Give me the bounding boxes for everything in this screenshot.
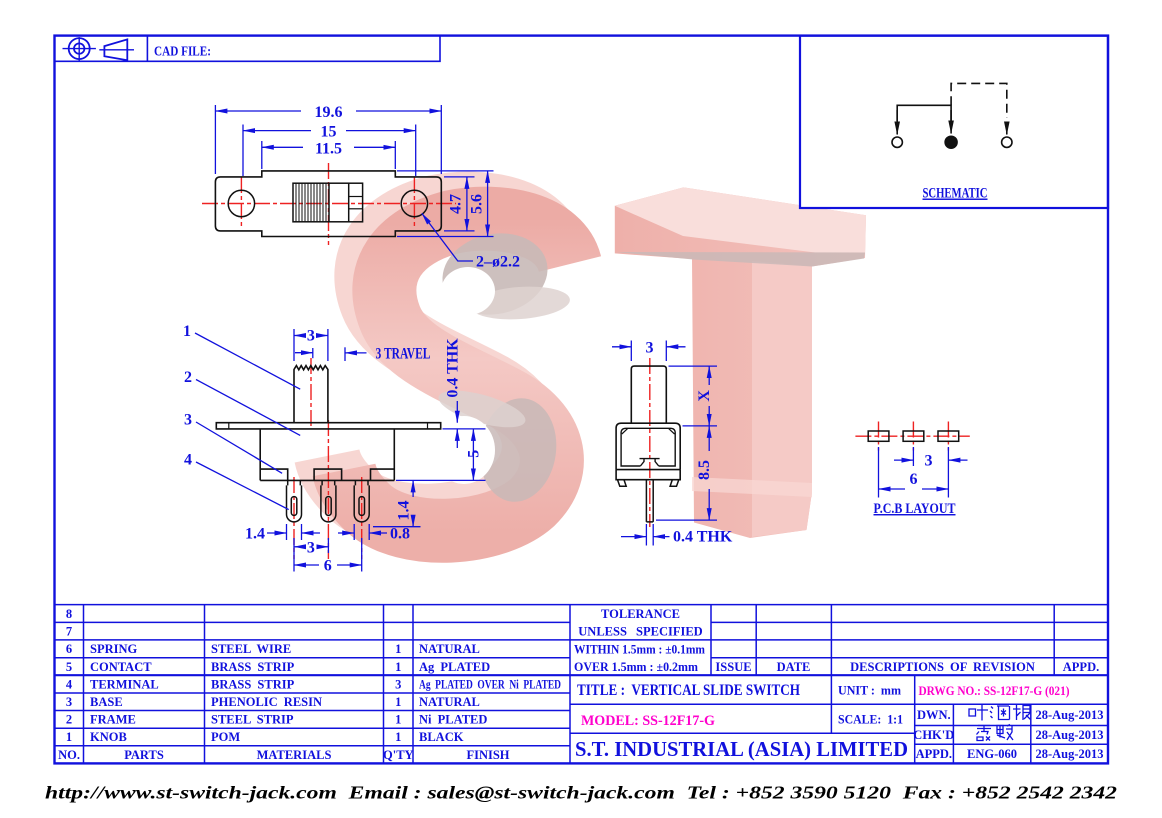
svg-text:BASE: BASE bbox=[90, 695, 123, 709]
svg-text:2: 2 bbox=[184, 369, 192, 386]
watermark ST bbox=[327, 187, 866, 538]
projection symbol (trapezoid) bbox=[104, 39, 127, 60]
svg-text:APPD.: APPD. bbox=[916, 747, 952, 761]
leader 2-phi2.2 bbox=[422, 213, 473, 261]
dim 5.6 bbox=[487, 171, 489, 237]
knob divider lines bbox=[328, 183, 330, 222]
base step left bbox=[260, 469, 288, 480]
svg-text:OVER 1.5mm : ±0.2mm: OVER 1.5mm : ±0.2mm bbox=[574, 660, 699, 674]
dim 6 bottom bbox=[294, 538, 362, 572]
top view bbox=[202, 104, 520, 271]
red centerline bbox=[649, 358, 651, 527]
svg-text:STEEL STRIP: STEEL STRIP bbox=[211, 713, 294, 727]
section divider thick bbox=[55, 674, 1109, 676]
body bbox=[260, 429, 394, 481]
svg-text:0.8: 0.8 bbox=[390, 526, 410, 543]
svg-text:UNLESS SPECIFIED: UNLESS SPECIFIED bbox=[578, 625, 702, 639]
dim 3 side bbox=[612, 341, 686, 362]
svg-text:BRASS STRIP: BRASS STRIP bbox=[211, 677, 295, 691]
title block bbox=[55, 605, 1109, 764]
svg-text:1: 1 bbox=[395, 642, 401, 656]
dimension extension lines bbox=[215, 105, 493, 237]
cad file divider bbox=[146, 36, 148, 62]
svg-text:MATERIALS: MATERIALS bbox=[257, 748, 332, 762]
terminal circle middle (common, filled) bbox=[945, 136, 957, 148]
svg-text:0.4 THK: 0.4 THK bbox=[673, 529, 733, 546]
svg-text:PARTS: PARTS bbox=[124, 748, 164, 762]
body collar bbox=[616, 470, 680, 480]
svg-text:1: 1 bbox=[395, 660, 401, 674]
svg-text:SPRING: SPRING bbox=[90, 642, 138, 656]
front view bbox=[183, 323, 486, 575]
name CHKD (Chinese strokes) bbox=[977, 725, 1014, 741]
svg-text:1.4: 1.4 bbox=[245, 526, 265, 543]
svg-text:8.5: 8.5 bbox=[696, 460, 713, 480]
svg-text:ISSUE: ISSUE bbox=[715, 660, 751, 674]
dim 15 bbox=[243, 130, 416, 132]
svg-text:DWN.: DWN. bbox=[917, 708, 951, 722]
T stem light band bbox=[692, 477, 812, 497]
arrow right bbox=[1006, 122, 1008, 135]
terminal circle left bbox=[892, 137, 902, 147]
base center bump bbox=[314, 469, 342, 480]
dim 5 bbox=[396, 429, 486, 481]
T bar top face bbox=[615, 187, 866, 252]
finish column bbox=[419, 642, 561, 744]
svg-text:19.6: 19.6 bbox=[315, 104, 343, 121]
svg-text:Q'TY: Q'TY bbox=[383, 748, 414, 762]
knob side bbox=[631, 366, 666, 423]
dim 8.5 bbox=[656, 426, 717, 520]
svg-text:ENG-060: ENG-060 bbox=[967, 747, 1017, 761]
registration target symbol bbox=[69, 38, 90, 59]
dates bbox=[1036, 708, 1104, 761]
svg-text:15: 15 bbox=[321, 124, 337, 141]
cad file box bbox=[55, 36, 441, 62]
dim 0.8 bottom bbox=[338, 524, 387, 540]
terminal pin bbox=[646, 480, 653, 522]
arrow left bbox=[896, 110, 898, 135]
plate outline bbox=[215, 171, 441, 237]
svg-text:1: 1 bbox=[395, 713, 401, 727]
svg-text:MODEL: SS-12F17-G: MODEL: SS-12F17-G bbox=[581, 713, 715, 729]
svg-text:http://www.st-switch-jack.com: http://www.st-switch-jack.com Email : sa… bbox=[45, 783, 1117, 803]
svg-text:5: 5 bbox=[466, 450, 483, 458]
svg-text:Ni PLATED: Ni PLATED bbox=[419, 713, 487, 727]
svg-text:1: 1 bbox=[395, 695, 401, 709]
svg-text:6: 6 bbox=[910, 471, 918, 488]
dim 1.4 right bbox=[373, 480, 421, 526]
pad 2 bbox=[903, 431, 924, 441]
flange bbox=[216, 423, 440, 429]
svg-text:2: 2 bbox=[66, 713, 72, 727]
svg-text:6: 6 bbox=[324, 558, 332, 575]
svg-text:APPD.: APPD. bbox=[1063, 660, 1099, 674]
svg-text:POM: POM bbox=[211, 730, 240, 744]
pcb layout bbox=[855, 422, 969, 518]
T bar bottom face bbox=[616, 252, 865, 267]
dim 3 knob bbox=[294, 329, 328, 361]
inner corner chamfers bbox=[622, 429, 628, 434]
svg-text:P.C.B LAYOUT: P.C.B LAYOUT bbox=[874, 501, 956, 517]
dim X bbox=[669, 366, 718, 426]
svg-text:1.4: 1.4 bbox=[396, 501, 413, 521]
terminal circle right bbox=[1002, 137, 1012, 147]
svg-text:28-Aug-2013: 28-Aug-2013 bbox=[1036, 728, 1104, 742]
pad 1 bbox=[868, 431, 889, 441]
T stem side face bbox=[752, 261, 812, 537]
svg-text:3: 3 bbox=[184, 412, 192, 429]
left table row numbers bbox=[58, 607, 80, 762]
svg-text:FRAME: FRAME bbox=[90, 713, 136, 727]
svg-text:2–ø2.2: 2–ø2.2 bbox=[476, 254, 520, 271]
dim 4.7 bbox=[466, 177, 468, 231]
dim 3 pcb bbox=[894, 447, 968, 466]
svg-text:NO.: NO. bbox=[58, 748, 80, 762]
svg-text:4: 4 bbox=[184, 451, 192, 468]
svg-text:3: 3 bbox=[395, 677, 401, 691]
svg-text:SCHEMATIC: SCHEMATIC bbox=[923, 186, 988, 202]
red centerlines bbox=[855, 422, 969, 451]
T bar silhouette bbox=[615, 187, 866, 538]
svg-text:6: 6 bbox=[66, 642, 72, 656]
qty column bbox=[383, 642, 414, 762]
flange hole ticks bbox=[228, 423, 230, 429]
svg-text:X: X bbox=[696, 390, 713, 402]
red centerlines bbox=[202, 163, 456, 245]
svg-text:5.6: 5.6 bbox=[469, 194, 486, 214]
svg-text:1: 1 bbox=[183, 323, 191, 340]
svg-text:Ag PLATED: Ag PLATED bbox=[419, 660, 490, 674]
schematic bbox=[892, 83, 1012, 201]
body inner cavity bbox=[621, 428, 675, 466]
svg-text:3: 3 bbox=[925, 453, 933, 470]
svg-text:STEEL WIRE: STEEL WIRE bbox=[211, 642, 291, 656]
dim 3 bottom bbox=[294, 538, 328, 572]
svg-text:3: 3 bbox=[66, 695, 72, 709]
knob with serrated top bbox=[294, 366, 328, 423]
svg-text:TITLE : VERTICAL SLIDE SWITCH: TITLE : VERTICAL SLIDE SWITCH bbox=[577, 682, 800, 699]
svg-text:UNIT : mm: UNIT : mm bbox=[838, 683, 901, 698]
table grid lines bbox=[55, 605, 1109, 764]
arrow middle bbox=[950, 110, 952, 134]
svg-text:SCALE: 1:1: SCALE: 1:1 bbox=[838, 712, 903, 727]
pad 3 bbox=[938, 431, 959, 441]
svg-text:Ag PLATED OVER Ni PLATED: Ag PLATED OVER Ni PLATED bbox=[419, 677, 561, 691]
terminal 3 bbox=[354, 480, 369, 522]
terminal 2 bbox=[321, 480, 336, 522]
dim 1.4 bottom bbox=[267, 524, 320, 540]
knob slot outline bbox=[293, 183, 363, 222]
svg-text:1: 1 bbox=[66, 730, 72, 744]
svg-text:4: 4 bbox=[66, 677, 73, 691]
svg-text:NATURAL: NATURAL bbox=[419, 642, 480, 656]
dim 19.6 bbox=[215, 110, 441, 112]
body side outer bbox=[616, 423, 680, 469]
name DWN (Chinese strokes) bbox=[969, 705, 1031, 721]
base step right bbox=[371, 469, 395, 480]
svg-text:28-Aug-2013: 28-Aug-2013 bbox=[1036, 708, 1104, 722]
dim 0.4 THK side bbox=[621, 524, 670, 546]
mounting hole right bbox=[401, 190, 427, 216]
body feet bbox=[618, 480, 627, 487]
mounting hole left bbox=[228, 190, 254, 216]
svg-text:KNOB: KNOB bbox=[90, 730, 127, 744]
svg-text:WITHIN 1.5mm : ±0.1mm: WITHIN 1.5mm : ±0.1mm bbox=[574, 643, 706, 657]
parts column bbox=[90, 642, 159, 744]
svg-text:TOLERANCE: TOLERANCE bbox=[601, 607, 680, 621]
side view bbox=[612, 339, 733, 545]
svg-text:3: 3 bbox=[646, 339, 654, 356]
S top bowl inner face bbox=[435, 224, 555, 324]
svg-text:7: 7 bbox=[66, 625, 72, 639]
svg-text:CHK'D: CHK'D bbox=[913, 728, 954, 742]
svg-text:11.5: 11.5 bbox=[315, 140, 342, 157]
svg-text:DRWG NO.: SS-12F17-G (021): DRWG NO.: SS-12F17-G (021) bbox=[919, 683, 1070, 698]
schematic box (white fill covers watermark) bbox=[800, 36, 1108, 208]
svg-text:5: 5 bbox=[66, 660, 72, 674]
dim 6 pcb bbox=[879, 447, 949, 498]
svg-text:BLACK: BLACK bbox=[419, 730, 464, 744]
svg-text:3: 3 bbox=[307, 539, 315, 556]
svg-text:3: 3 bbox=[307, 328, 315, 345]
svg-text:TERMINAL: TERMINAL bbox=[90, 677, 159, 691]
dim 11.5 bbox=[262, 146, 396, 148]
svg-text:CAD FILE:: CAD FILE: bbox=[154, 45, 211, 60]
svg-text:0.4 THK: 0.4 THK bbox=[445, 338, 462, 398]
svg-text:BRASS STRIP: BRASS STRIP bbox=[211, 660, 295, 674]
svg-text:FINISH: FINISH bbox=[466, 748, 509, 762]
knob hatching bbox=[296, 183, 326, 222]
svg-text:1: 1 bbox=[395, 730, 401, 744]
svg-text:4.7: 4.7 bbox=[448, 194, 465, 214]
svg-text:CONTACT: CONTACT bbox=[90, 660, 152, 674]
dim 3 travel bbox=[295, 347, 367, 361]
S counter holes bbox=[441, 267, 495, 315]
svg-text:DESCRIPTIONS OF REVISION: DESCRIPTIONS OF REVISION bbox=[850, 660, 1035, 674]
S main ribbon bbox=[344, 219, 570, 531]
S extrusion light layer bbox=[327, 205, 553, 517]
svg-text:PHENOLIC RESIN: PHENOLIC RESIN bbox=[211, 695, 322, 709]
solid wire left bbox=[897, 105, 951, 121]
center pedestal bbox=[640, 459, 660, 466]
svg-text:28-Aug-2013: 28-Aug-2013 bbox=[1036, 747, 1104, 761]
terminal 1 bbox=[287, 480, 302, 522]
svg-text:3 TRAVEL: 3 TRAVEL bbox=[376, 346, 431, 363]
red centerlines bbox=[294, 358, 362, 559]
svg-text:DATE: DATE bbox=[777, 660, 811, 674]
svg-text:S.T. INDUSTRIAL (ASIA) LIMITED: S.T. INDUSTRIAL (ASIA) LIMITED bbox=[575, 737, 908, 761]
materials column bbox=[211, 642, 322, 744]
svg-text:8: 8 bbox=[66, 607, 72, 621]
S bottom bowl inner face bbox=[473, 393, 563, 507]
dashed wire right bbox=[951, 83, 1007, 118]
svg-text:NATURAL: NATURAL bbox=[419, 695, 480, 709]
